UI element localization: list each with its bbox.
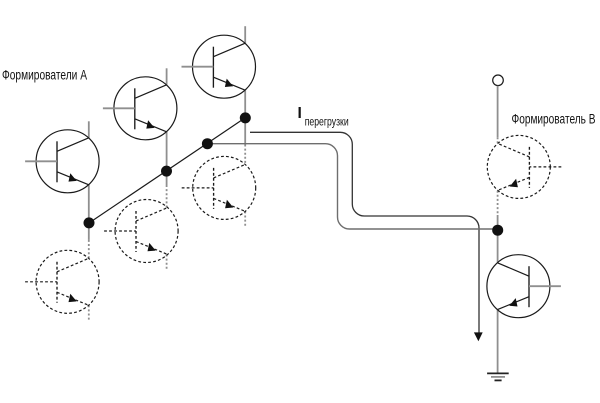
transistor VT5 (driver A, dashed, below VT2): base lead — [104, 230, 136, 232]
transistor VT2 (driver A, middle, solid): base bar — [134, 88, 136, 129]
diagonal rail joining driver-A outputs (N1-N2-N3-N4) — [89, 118, 245, 223]
transistor VT7 (driver B, dashed, upper): collector line — [498, 143, 530, 157]
transistor VT6 (driver A, dashed, below VT3): emitter arrow — [225, 200, 233, 208]
transistor VT8 (driver B, solid, lower): emitter arrow — [509, 298, 517, 306]
wire: dashed segment into VT4 collector — [88, 240, 90, 258]
junction node NB — [492, 225, 503, 236]
transistor VT8 (driver B, solid, lower): emitter line — [497, 297, 529, 310]
transistor VT8 (driver B, solid, lower): collector line — [497, 263, 529, 277]
transistor VT3 (driver A, upper-right, solid): collector line — [213, 43, 245, 57]
svg-text:Формирователи А: Формирователи А — [2, 67, 87, 82]
transistor VT1 (driver A, lower-left, solid): base lead — [25, 160, 57, 162]
transistor VT5 (driver A, dashed, below VT2): collector line — [136, 208, 168, 222]
transistor VT7 (driver B, dashed, upper): base bar — [528, 147, 530, 188]
overload-current bus: lower line (from node N3 to node NB) — [207, 144, 497, 229]
wire: VT1 collector stub (top) — [88, 121, 90, 138]
transistor VT3 (driver A, upper-right, solid): circle — [193, 35, 256, 98]
junction node N3 — [202, 138, 213, 149]
transistor VT2 (driver A, middle, solid): emitter arrow — [146, 120, 154, 128]
transistor VT5 (driver A, dashed, below VT2): base bar — [135, 211, 137, 252]
overload-current bus: upper line (from VT3 output, S-bend, ends in arrow) — [250, 132, 479, 332]
overload-current arrow (points down) — [474, 332, 483, 341]
transistor VT4 (driver A, dashed, below VT1): emitter arrow — [69, 294, 77, 302]
transistor VT7 (driver B, dashed, upper): circle — [487, 135, 550, 198]
wire: VT2 collector stub (top) — [166, 68, 168, 85]
wire: VT3 collector stub (top) — [244, 26, 246, 43]
wire: node N2 to solid/dash transition — [166, 171, 168, 185]
transistor VT2 (driver A, middle, solid): base lead — [103, 107, 135, 109]
transistor VT4 (driver A, dashed, below VT1): base bar — [56, 262, 58, 303]
ground symbol — [487, 373, 509, 380]
wire: VT6 emitter dashed stub (bottom) — [244, 211, 246, 227]
transistor VT3 (driver A, upper-right, solid): base lead — [182, 66, 214, 68]
transistor VT1 (driver A, lower-left, solid): emitter arrow — [69, 173, 77, 181]
transistor VT2 (driver A, middle, solid): circle — [114, 77, 177, 140]
wire: dashed segment into VT6 collector — [244, 145, 246, 165]
junction node N2 — [161, 166, 172, 177]
wire: dashed segment into VT7 collector — [497, 137, 499, 143]
transistor VT6 (driver A, dashed, below VT3): emitter line — [214, 198, 246, 211]
transistor VT3 (driver A, upper-right, solid): emitter arrow — [225, 79, 233, 87]
transistor VT6 (driver A, dashed, below VT3): base lead — [182, 187, 214, 189]
transistor VT6 (driver A, dashed, below VT3): circle — [193, 156, 256, 219]
wire: node N4 down across lower bus line — [244, 118, 246, 145]
junction node N1 — [84, 217, 95, 228]
wire: VT5 emitter dashed stub (bottom) — [166, 255, 168, 271]
transistor VT4 (driver A, dashed, below VT1): circle — [36, 250, 99, 313]
transistor VT5 (driver A, dashed, below VT2): emitter arrow — [148, 243, 156, 251]
transistor VT8 (driver B, solid, lower): base lead — [529, 285, 561, 287]
transistor VT5 (driver A, dashed, below VT2): emitter line — [136, 242, 168, 255]
transistor VT3 (driver A, upper-right, solid): emitter line — [213, 77, 245, 90]
transistor VT6 (driver A, dashed, below VT3): collector line — [214, 164, 246, 178]
wire: VT3 emitter to node N4 — [244, 90, 246, 118]
wire: VT2 emitter to node N2 — [166, 132, 168, 171]
transistor VT3 (driver A, upper-right, solid): base bar — [212, 47, 214, 88]
transistor VT5 (driver A, dashed, below VT2): circle — [115, 200, 178, 263]
transistor VT4 (driver A, dashed, below VT1): emitter line — [57, 292, 89, 305]
svg-text:I: I — [298, 105, 302, 122]
transistor VT1 (driver A, lower-left, solid): circle — [36, 130, 99, 193]
transistor VT4 (driver A, dashed, below VT1): collector line — [57, 258, 89, 272]
wire: dashed segment into VT5 collector — [166, 185, 168, 208]
wire: solid segment to node NB — [497, 215, 499, 230]
transistor VT7 (driver B, dashed, upper): emitter arrow — [510, 179, 518, 187]
transistor VT4 (driver A, dashed, below VT1): base lead — [25, 281, 57, 283]
transistor VT1 (driver A, lower-left, solid): emitter line — [57, 172, 89, 185]
svg-text:перегрузки: перегрузки — [305, 115, 349, 129]
wire: node NB to VT8 collector — [497, 230, 499, 263]
wire: VT7 emitter dashed segment down — [497, 191, 499, 215]
transistor VT7 (driver B, dashed, upper): emitter line — [498, 177, 530, 190]
transistor VT8 (driver B, solid, lower): base bar — [528, 266, 530, 307]
wire: VT4 emitter dashed stub (bottom) — [88, 305, 90, 321]
junction node N4 — [240, 112, 251, 123]
svg-text:Формирователь В: Формирователь В — [512, 112, 596, 127]
transistor VT2 (driver A, middle, solid): collector line — [135, 85, 167, 99]
transistor VT2 (driver A, middle, solid): emitter line — [135, 119, 167, 132]
transistor VT1 (driver A, lower-left, solid): base bar — [56, 141, 58, 182]
wire: terminal to VT7 (solid part) — [497, 86, 499, 137]
wire: node N1 to solid/dash transition — [88, 223, 90, 240]
transistor VT1 (driver A, lower-left, solid): collector line — [57, 138, 89, 152]
terminal: open circle input of driver B — [493, 75, 504, 86]
wire: VT1 emitter to node N1 — [88, 185, 90, 223]
transistor VT6 (driver A, dashed, below VT3): base bar — [213, 168, 215, 209]
wire: VT8 emitter down to ground — [497, 310, 499, 373]
transistor VT7 (driver B, dashed, upper): base lead — [529, 166, 561, 168]
transistor VT8 (driver B, solid, lower): circle — [487, 255, 550, 318]
